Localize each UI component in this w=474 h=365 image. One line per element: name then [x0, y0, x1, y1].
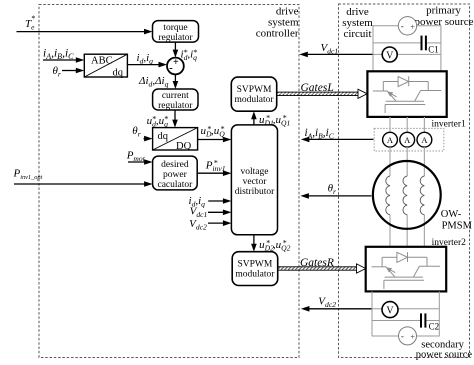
block torque regulator — [153, 21, 199, 43]
label Pmot — [126, 150, 146, 164]
svg-text:uD2*,uQ2*: uD2*,uQ2* — [259, 238, 291, 252]
wire phase lines ammeters to motor — [390, 147, 424, 176]
bus GatesR hatched arrow — [278, 264, 366, 273]
wire iA,iB,iC into ABC block — [43, 57, 84, 63]
ammeter A phase A — [383, 132, 398, 147]
wire secondary source row — [372, 335, 439, 337]
wire phase stubs inverter1 to ammeters — [390, 117, 424, 132]
svg-text:ABC: ABC — [91, 56, 113, 67]
inverter1 internal IGBT+diode icon — [373, 76, 442, 113]
wire distributor up to SVPWM modulator 1 — [251, 111, 257, 125]
label: drive system controller — [256, 6, 299, 40]
label: drive system circuit — [342, 6, 373, 40]
svg-text:distributor: distributor — [235, 187, 275, 197]
svg-text:ud*,uq*: ud*,uq* — [147, 114, 169, 128]
block SVPWM modulator 1 — [231, 77, 276, 111]
svg-text:-: - — [169, 62, 173, 74]
label Pinv1* — [205, 158, 226, 173]
label uD*,uQ* — [201, 124, 226, 138]
motor winding coil phase A — [386, 176, 390, 215]
svg-text:modulator: modulator — [235, 270, 275, 280]
svg-text:V: V — [386, 305, 394, 316]
label GatesR — [300, 257, 334, 269]
wire top dc bus row through primary source — [373, 25, 441, 27]
block voltage vector distributor — [231, 125, 277, 235]
svg-text:circuit: circuit — [343, 28, 371, 40]
svg-text:GatesL: GatesL — [301, 82, 334, 94]
label id,iq — [137, 52, 154, 66]
svg-text:SVPWM: SVPWM — [237, 85, 272, 95]
svg-text:V: V — [386, 50, 394, 61]
label theta_r feedback — [328, 183, 336, 197]
wire Vdc2 into distributor — [208, 220, 231, 226]
block dq/DQ transform — [153, 128, 198, 152]
svg-text:uD*,uQ*: uD*,uQ* — [201, 124, 226, 138]
ammeter dotted box — [374, 128, 444, 151]
wire Vdc1 into distributor — [208, 210, 231, 216]
drive system controller dashed box — [39, 5, 299, 358]
voltmeter V1 — [382, 47, 397, 62]
svg-text:primary: primary — [426, 5, 461, 17]
svg-text:current: current — [162, 91, 189, 101]
capacitor C2 — [421, 313, 439, 331]
svg-text:A: A — [404, 135, 411, 145]
svg-text:inverter1: inverter1 — [432, 119, 467, 129]
primary power source symbol — [398, 17, 416, 35]
svg-text:Δid,Δiq: Δid,Δiq — [138, 75, 169, 89]
svg-text:OW-: OW- — [441, 209, 462, 220]
wire iA,iB,iC feedback arrow — [301, 137, 374, 143]
ammeter A phase B — [400, 132, 415, 147]
capacitor C1 — [422, 36, 439, 55]
svg-text:caculator: caculator — [157, 180, 193, 190]
svg-text:vector: vector — [243, 177, 268, 187]
wire right dc rail top — [440, 25, 442, 71]
svg-text:C1: C1 — [428, 45, 439, 55]
svg-text:power: power — [163, 170, 188, 180]
label Pinv1_opt — [13, 168, 43, 182]
node Te* label — [25, 14, 35, 32]
wire phase lines motor to inverter2 — [390, 215, 424, 247]
svg-text:PMSM: PMSM — [442, 220, 473, 231]
svg-text:controller: controller — [256, 28, 299, 40]
block desired power caculator — [153, 156, 198, 190]
svg-text:dq: dq — [158, 131, 169, 142]
wire summing junction to current regulator — [173, 74, 179, 89]
bus GatesL hatched arrow — [277, 89, 368, 98]
wire dq/DQ to voltage vector distributor — [198, 137, 232, 143]
svg-text:C2: C2 — [429, 322, 440, 332]
wire left dc rail bottom — [371, 291, 373, 336]
wire desired power caculator to distributor — [197, 170, 231, 176]
wire torque regulator to summing junction — [173, 42, 179, 58]
wire Pmot into desired power caculator — [128, 159, 153, 165]
svg-text:GatesR: GatesR — [300, 257, 334, 269]
wire Te* into torque regulator — [17, 29, 153, 35]
svg-text:id*,iq*: id*,iq* — [181, 48, 198, 62]
label delta id, delta iq — [138, 75, 169, 89]
wire Vdc2 feedback arrow — [301, 306, 372, 312]
inverter2 box — [366, 247, 447, 292]
wire distributor down to SVPWM modulator 2 — [251, 235, 257, 252]
svg-text:torque: torque — [163, 23, 187, 33]
svg-text:SVPWM: SVPWM — [237, 259, 272, 269]
inverter2 internal IGBT+diode icon — [372, 252, 441, 289]
label Vdc2 feedback — [318, 296, 336, 310]
wire voltmeter V1 row — [373, 53, 441, 55]
label Vdc2 distributor input — [189, 218, 207, 232]
svg-text:system: system — [342, 17, 373, 29]
block SVPWM modulator 2 — [232, 252, 278, 286]
svg-text:uD1*,uQ1*: uD1*,uQ1* — [259, 113, 290, 127]
wire Pinv1_opt into desired power caculator — [14, 181, 153, 187]
wire theta_r into ABC block — [62, 68, 84, 74]
label theta_r input to ABC — [53, 65, 61, 79]
svg-text:regulator: regulator — [158, 101, 193, 111]
svg-text:dq: dq — [113, 68, 124, 79]
svg-text:voltage: voltage — [241, 167, 269, 177]
label theta_r input to dq/DQ — [132, 125, 140, 139]
voltmeter V2 — [382, 302, 398, 318]
label uD1*,uQ1* — [259, 113, 290, 127]
drive system circuit dashed box — [339, 4, 470, 358]
motor winding coil phase C — [420, 176, 424, 215]
summing junction — [167, 57, 184, 75]
wire ABC output to summing junction — [127, 62, 167, 68]
wire right dc rail bottom — [438, 291, 440, 336]
inverter1 box — [367, 71, 446, 117]
block ABC/dq transform — [84, 54, 127, 78]
wire capacitor C1 row — [373, 42, 441, 44]
wire Vdc1 feedback arrow — [299, 52, 373, 58]
block current regulator — [153, 89, 198, 111]
svg-text:A: A — [421, 135, 428, 145]
svg-text:DQ: DQ — [176, 141, 192, 152]
svg-text:+: + — [410, 22, 415, 31]
wire capacitor C2 row — [372, 320, 439, 322]
svg-text:+: + — [173, 57, 179, 68]
label inverter1 — [432, 119, 467, 129]
label Vdc1 distributor input — [190, 206, 208, 220]
svg-text:A: A — [387, 135, 394, 145]
svg-text:desired: desired — [161, 160, 189, 170]
secondary power source symbol — [399, 327, 417, 345]
label iA,iB,iC input — [43, 48, 74, 62]
ammeter A phase C — [417, 132, 432, 147]
label GatesL — [301, 82, 334, 94]
label inverter2 — [432, 238, 467, 248]
svg-text:+: + — [410, 332, 415, 341]
label iA,iB,iC feedback — [305, 127, 335, 141]
label secondary power source — [416, 340, 473, 361]
wire voltmeter V2 row — [372, 308, 439, 310]
label uD2*,uQ2* — [259, 238, 291, 252]
node id*,iq* label — [181, 48, 198, 62]
wire theta_r feedback arrow — [300, 193, 371, 199]
label OW-PMSM — [441, 209, 473, 231]
svg-text:regulator: regulator — [158, 33, 193, 43]
svg-text:modulator: modulator — [234, 95, 274, 105]
label ud*,uq* — [147, 114, 169, 128]
motor winding coil phase B — [403, 176, 407, 215]
svg-text:power source: power source — [416, 350, 473, 361]
motor OW-PMSM circle — [373, 161, 441, 229]
wire id,iq into distributor — [208, 198, 231, 204]
svg-text:-: - — [401, 331, 404, 341]
wire left dc rail top — [372, 25, 374, 71]
label Vdc1 feedback — [321, 42, 339, 56]
svg-text:-: - — [401, 21, 404, 31]
label: primary power source — [415, 5, 474, 29]
wire current regulator to dq/DQ block — [172, 110, 178, 128]
label id,iq distributor input — [189, 195, 206, 209]
wire theta_r into dq/DQ — [144, 136, 153, 142]
